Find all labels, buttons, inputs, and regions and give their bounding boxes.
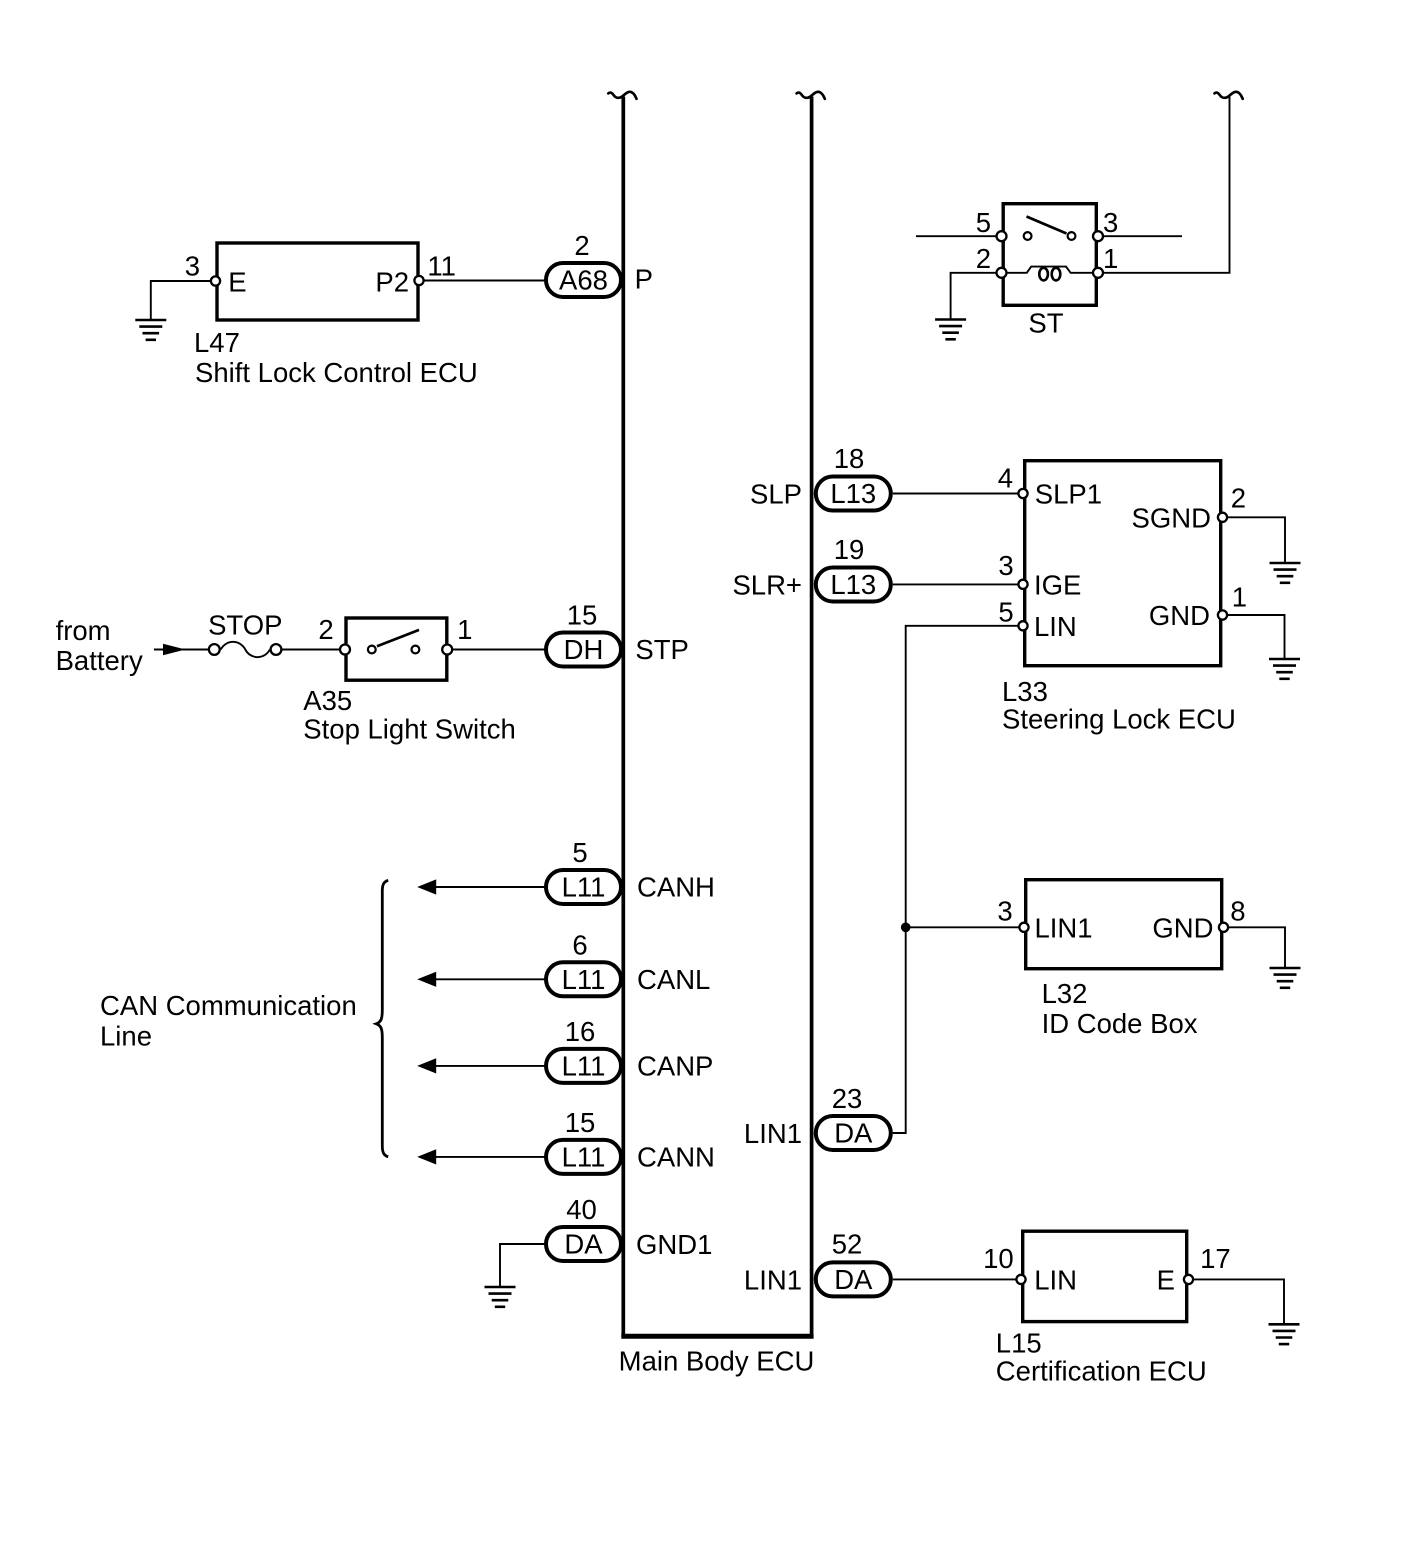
svg-text:GND1: GND1 <box>636 1229 712 1260</box>
svg-text:GND: GND <box>1152 912 1213 943</box>
svg-text:5: 5 <box>572 837 587 868</box>
ground at L33 GND <box>1269 659 1300 679</box>
svg-text:10: 10 <box>983 1243 1014 1274</box>
ST switch contact circles <box>1024 232 1032 240</box>
connector DA pin 40 <box>546 1227 621 1261</box>
connector L11 (CANN) <box>546 1140 621 1174</box>
svg-text:2: 2 <box>976 243 991 274</box>
svg-text:ID Code Box: ID Code Box <box>1042 1008 1198 1039</box>
ground at GND1 <box>485 1287 516 1307</box>
svg-text:LIN: LIN <box>1034 1264 1077 1295</box>
ST switch arm <box>1027 217 1067 234</box>
wire L47 pin 11 to connector A68 <box>419 280 546 282</box>
connector DA pin 52 <box>816 1262 891 1296</box>
wire L33 LIN down to junction and DA connector <box>893 626 1021 1133</box>
L15 pin 10 LIN <box>1016 1275 1025 1284</box>
pin 11 (P2) of L47 <box>414 276 423 285</box>
wire ST pin 1 up with break <box>1098 97 1230 273</box>
break mark on left bus line <box>608 92 636 99</box>
svg-text:Shift Lock Control ECU: Shift Lock Control ECU <box>195 357 478 388</box>
wire CANP with arrow <box>434 1065 546 1067</box>
svg-text:DH: DH <box>564 634 604 665</box>
connector L11 (CANH) <box>546 870 621 904</box>
svg-text:SGND: SGND <box>1132 502 1211 533</box>
svg-text:Stop Light Switch: Stop Light Switch <box>303 714 515 745</box>
ground at L32 GND <box>1270 968 1301 988</box>
svg-text:SLR+: SLR+ <box>732 569 802 600</box>
svg-text:CANN: CANN <box>637 1142 715 1173</box>
connector L13 pin 18 <box>816 477 891 511</box>
svg-text:P2: P2 <box>375 266 409 297</box>
connector DA pin 23 <box>816 1116 891 1150</box>
svg-text:Steering Lock ECU: Steering Lock ECU <box>1002 704 1236 735</box>
svg-text:3: 3 <box>997 895 1012 926</box>
svg-text:L13: L13 <box>830 569 876 600</box>
svg-text:L33: L33 <box>1002 676 1048 707</box>
svg-text:L13: L13 <box>830 478 876 509</box>
svg-text:16: 16 <box>565 1016 596 1047</box>
svg-text:1: 1 <box>1103 243 1118 274</box>
Main Body ECU left bus line <box>621 97 625 1337</box>
svg-text:18: 18 <box>834 443 865 474</box>
break mark on ST pin 1 wire <box>1215 92 1243 99</box>
fuse STOP <box>209 642 281 657</box>
ECU box L33 <box>1025 461 1221 666</box>
break mark on right bus line <box>797 92 825 99</box>
Main Body ECU right bus line <box>810 97 814 1337</box>
wire DA (40) to ground <box>500 1244 546 1286</box>
svg-text:L15: L15 <box>996 1328 1042 1359</box>
switch box ST <box>1003 204 1096 306</box>
svg-text:CANL: CANL <box>637 964 710 995</box>
A35 contact circles <box>368 646 376 654</box>
svg-text:6: 6 <box>572 929 587 960</box>
svg-text:A68: A68 <box>559 265 608 296</box>
wire CANH with arrow <box>434 886 546 888</box>
wire fuse to A35 pin 2 <box>281 649 345 651</box>
L33 pin 1 GND <box>1218 610 1227 619</box>
pin 3 (E) of L47 <box>211 276 220 285</box>
svg-text:40: 40 <box>566 1194 597 1225</box>
ST relay coil <box>1002 267 1099 273</box>
svg-text:DA: DA <box>834 1264 873 1295</box>
ECU box L47 <box>217 243 418 320</box>
L33 pin 2 SGND <box>1218 513 1227 522</box>
L15 pin 17 E <box>1184 1275 1193 1284</box>
junction dot on LIN wire <box>901 923 911 933</box>
ST pin 5 <box>997 231 1007 241</box>
wire L32 GND to ground <box>1224 927 1286 967</box>
L33 pin 5 LIN <box>1018 621 1027 630</box>
svg-text:2: 2 <box>1231 482 1246 513</box>
svg-text:LIN1: LIN1 <box>744 1264 802 1295</box>
ST pin 2 <box>997 268 1007 278</box>
svg-text:DA: DA <box>834 1118 873 1149</box>
svg-text:STP: STP <box>635 634 688 665</box>
A35 pin 1 <box>442 645 452 655</box>
svg-text:L11: L11 <box>562 1051 606 1082</box>
svg-text:Line: Line <box>100 1021 152 1052</box>
svg-text:15: 15 <box>565 1107 596 1138</box>
connector A68 <box>546 263 621 297</box>
A35 switch arm <box>377 630 419 646</box>
connector DH <box>546 633 621 667</box>
svg-text:23: 23 <box>832 1083 863 1114</box>
wire L13 to L33 SLP1 <box>893 493 1021 495</box>
svg-text:GND: GND <box>1149 600 1210 631</box>
wire ST pin 2 to ground <box>951 273 1002 319</box>
svg-text:5: 5 <box>998 597 1013 628</box>
wire L47 pin 3 to ground <box>151 281 216 319</box>
svg-text:E: E <box>1157 1264 1175 1295</box>
switch box A35 <box>346 618 447 680</box>
connector L11 (CANP) <box>546 1049 621 1083</box>
wire L13 to L33 IGE <box>893 583 1021 585</box>
svg-text:52: 52 <box>832 1229 863 1260</box>
svg-text:L11: L11 <box>562 964 606 995</box>
svg-text:SLP: SLP <box>750 479 802 510</box>
ground at ST pin 2 <box>935 320 966 340</box>
wire into ST pin 5 <box>916 235 1002 237</box>
svg-text:15: 15 <box>567 600 598 631</box>
svg-text:LIN1: LIN1 <box>744 1118 802 1149</box>
connector L11 (CANL) <box>546 962 621 996</box>
arrow from battery <box>163 644 186 656</box>
svg-text:from: from <box>56 615 111 646</box>
wire L33 GND to ground <box>1223 615 1285 658</box>
svg-text:STOP: STOP <box>208 609 282 640</box>
svg-text:LIN: LIN <box>1034 611 1077 642</box>
svg-text:E: E <box>228 266 246 297</box>
svg-text:A35: A35 <box>303 685 352 716</box>
svg-text:IGE: IGE <box>1034 569 1081 600</box>
svg-text:L47: L47 <box>194 327 240 358</box>
ground at L33 SGND <box>1270 563 1301 583</box>
ST pin 1 <box>1093 268 1103 278</box>
svg-text:1: 1 <box>457 614 472 645</box>
wire L15 E to ground <box>1189 1279 1285 1323</box>
svg-text:CANH: CANH <box>637 872 715 903</box>
wire CANN with arrow <box>434 1156 546 1158</box>
wire A35 pin 1 to DH <box>452 649 546 651</box>
svg-text:3: 3 <box>1103 207 1118 238</box>
svg-text:8: 8 <box>1230 895 1245 926</box>
svg-text:Certification ECU: Certification ECU <box>996 1356 1207 1387</box>
svg-text:17: 17 <box>1200 1243 1231 1274</box>
A35 pin 2 <box>340 645 350 655</box>
svg-text:Battery: Battery <box>56 645 143 676</box>
ground at L15 E <box>1269 1324 1300 1344</box>
ground at L47 pin 3 <box>135 320 166 340</box>
L32 pin 8 GND <box>1219 923 1228 932</box>
svg-text:Main Body ECU: Main Body ECU <box>619 1346 815 1377</box>
svg-text:5: 5 <box>976 207 991 238</box>
svg-text:3: 3 <box>185 250 200 281</box>
L33 pin 3 IGE <box>1018 580 1027 589</box>
svg-text:2: 2 <box>318 614 333 645</box>
svg-text:4: 4 <box>998 462 1013 493</box>
wire out of ST pin 3 <box>1098 235 1182 237</box>
Main Body ECU bottom edge <box>621 1334 813 1339</box>
svg-text:L32: L32 <box>1042 978 1088 1009</box>
svg-text:L11: L11 <box>562 1142 606 1173</box>
wire from battery <box>154 649 209 651</box>
L32 pin 3 LIN1 <box>1019 923 1028 932</box>
wire DA 52 to L15 LIN <box>893 1278 1019 1280</box>
svg-text:SLP1: SLP1 <box>1035 479 1102 510</box>
svg-text:P: P <box>635 264 653 295</box>
wire L33 SGND to ground <box>1223 517 1286 562</box>
svg-text:L11: L11 <box>562 872 606 903</box>
wire junction to L32 LIN1 <box>906 926 1022 928</box>
svg-text:CAN Communication: CAN Communication <box>100 990 357 1021</box>
svg-text:3: 3 <box>998 550 1013 581</box>
brace for CAN Communication Line <box>376 880 388 1157</box>
svg-text:DA: DA <box>564 1229 603 1260</box>
svg-text:CANP: CANP <box>637 1051 713 1082</box>
svg-text:11: 11 <box>427 250 456 281</box>
svg-text:19: 19 <box>834 534 865 565</box>
svg-text:ST: ST <box>1028 308 1063 339</box>
L33 pin 4 SLP1 <box>1018 489 1027 498</box>
connector L13 pin 19 <box>816 568 891 602</box>
svg-text:2: 2 <box>574 230 589 261</box>
ECU box L15 <box>1023 1231 1187 1321</box>
ECU box L32 <box>1026 880 1222 969</box>
svg-text:1: 1 <box>1232 581 1247 612</box>
wire CANL with arrow <box>434 978 546 980</box>
ST pin 3 <box>1093 231 1103 241</box>
svg-text:LIN1: LIN1 <box>1035 912 1093 943</box>
